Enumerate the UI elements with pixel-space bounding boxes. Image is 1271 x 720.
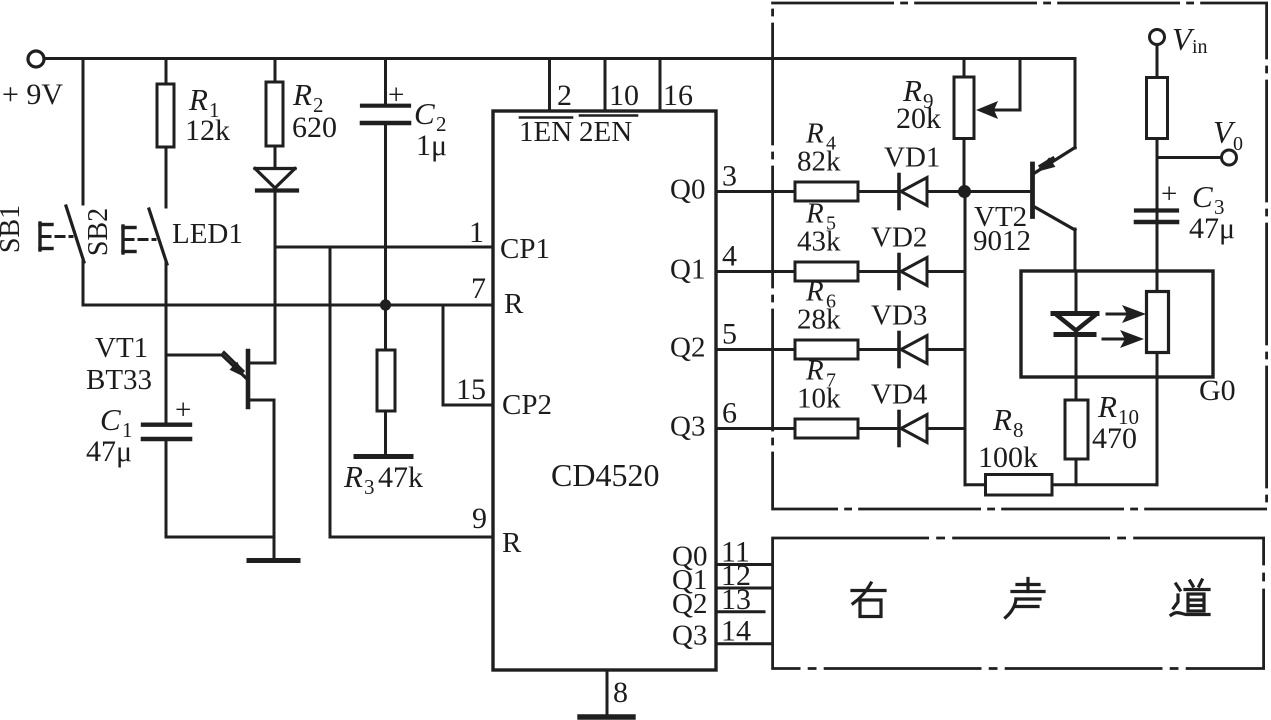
wire VD1 to bus [927,190,965,193]
svg-text:LED1: LED1 [172,218,243,250]
wire G0 LED cathode down to R10 [1075,336,1078,400]
R9 wiper arm [1019,59,1022,111]
wire R2 to LED1 [274,146,277,168]
svg-text:SB2: SB2 [83,208,114,256]
wire VT2 emitter up to bus [1074,59,1077,149]
ground pin 8 [580,714,633,719]
svg-text:Q1: Q1 [670,254,705,286]
svg-text:+: + [1161,178,1177,210]
svg-text:28k: 28k [797,304,841,336]
transistor VT1 [166,354,222,357]
svg-text:16: 16 [663,79,693,112]
svg-text:R: R [502,527,522,559]
dashed right-channel box border [773,538,1264,669]
wire pin 2 stub [548,59,551,112]
wire Q0 pin3 line [716,190,795,193]
svg-text:VD1: VD1 [884,142,940,174]
wire VT2 base from node [965,190,1030,193]
wire R8 left lead [965,483,986,486]
svg-text:C: C [100,402,121,437]
wire diode output bus vertical [964,192,967,485]
wire pin 9 R line [330,536,493,539]
wire Q2 pin5 line [716,348,795,351]
wire pin 12 line [716,587,771,590]
svg-text:6: 6 [722,397,737,430]
svg-text:620: 620 [292,111,337,144]
wire pin 16 stub [659,59,662,112]
wire pin 11 line [716,563,771,566]
wire R2 top lead [274,59,277,83]
wire R line to CP2 vertical [442,305,445,405]
svg-text:BT33: BT33 [86,364,152,396]
wire R line (pin 7) [83,304,493,307]
resistor R8 [986,475,1053,496]
svg-text:SB1: SB1 [0,205,26,253]
diode VD1 [897,175,901,209]
pin 8 stub [606,670,609,716]
wire C2 top lead [384,59,387,105]
svg-text:G0: G0 [1199,374,1236,407]
label right channel chinese sheng [1006,579,1045,618]
svg-text:Q3: Q3 [670,411,705,443]
wire SB1 top lead [82,59,85,205]
wire VT2 collector down to G0 [1074,229,1077,271]
wire R1 to SB2 [165,147,168,207]
svg-text:VT1: VT1 [95,332,148,364]
ground bar under R3 [356,454,411,459]
wire R5 to VD2 [858,270,898,273]
svg-text:CD4520: CD4520 [551,457,659,493]
wire R8 right lead [1052,483,1157,486]
svg-text:0: 0 [1233,133,1243,155]
svg-text:R: R [1097,389,1117,424]
svg-text:Q2: Q2 [672,588,707,620]
diode VD4 [897,412,901,446]
svg-text:2: 2 [557,79,572,112]
resistor R6 [795,340,858,359]
resistor R1 [157,84,174,147]
svg-text:R: R [504,288,524,320]
capacitor C1 [143,423,190,427]
wire pin 15 CP2 line [443,404,493,407]
svg-text:R: R [992,402,1012,437]
svg-text:15: 15 [456,373,486,406]
wire R9 top lead [963,59,966,78]
wire photoresistor top to C3 [1156,224,1159,292]
svg-text:82k: 82k [797,146,841,178]
label right channel chinese you [852,583,885,617]
resistor R7 [795,419,858,438]
svg-text:4: 4 [722,240,737,273]
wire VD3 to bus [927,348,965,351]
svg-text:43k: 43k [797,226,841,258]
wire main +9V bus [44,57,1075,60]
optocoupler G0 box [1021,271,1213,377]
svg-text:3: 3 [364,475,375,499]
svg-text:+: + [388,79,404,111]
svg-text:Q2: Q2 [670,332,705,364]
svg-text:47μ: 47μ [1189,212,1235,245]
switch SB1 [66,206,84,262]
svg-text:47μ: 47μ [86,435,132,468]
label right channel chinese dao [1171,580,1209,615]
svg-text:9012: 9012 [973,225,1031,257]
svg-text:5: 5 [722,318,737,351]
op-amp U1 CD4520 box [493,111,716,670]
diode VD3 [897,333,901,367]
capacitor C2 [362,104,409,108]
svg-text:2EN: 2EN [579,116,632,148]
photoresistor in G0 [1147,292,1169,353]
svg-text:10: 10 [609,79,639,112]
svg-text:CP2: CP2 [502,389,552,421]
wire R3 bottom lead [384,411,387,455]
svg-text:VD4: VD4 [871,379,928,411]
svg-text:10k: 10k [797,383,841,415]
wire R10 bottom lead [1075,459,1078,485]
wire CP1 to pin9 vertical [329,247,332,537]
LED inside G0 [1053,311,1097,316]
wire VT1 B1 down [273,400,276,537]
svg-text:VD3: VD3 [871,300,927,332]
transistor VT2 [1030,164,1035,217]
terminal Vin [1150,30,1165,45]
svg-text:Q3: Q3 [672,620,707,652]
wire R4 to VD1 [858,190,898,193]
svg-text:Q0: Q0 [670,174,705,206]
wire pin 14 line [716,642,771,645]
photoresistor arrows [1107,313,1128,316]
svg-text:20k: 20k [896,102,941,135]
resistor R9 (pot) [954,77,974,139]
svg-text:1EN: 1EN [519,116,572,148]
svg-text:470: 470 [1092,422,1137,455]
svg-text:R: R [343,459,363,494]
svg-text:12k: 12k [185,114,230,147]
resistor (Vin series) [1147,78,1168,139]
wire pin 10 stub [604,59,607,112]
wire C1 top lead [165,305,168,423]
svg-text:+: + [175,394,191,426]
wire VD4 to bus [927,427,965,430]
svg-text:8: 8 [1013,418,1024,442]
SB1 pushbutton actuator [38,223,41,250]
wire Vin to resistor [1156,45,1159,78]
wire resistor to V0 tap [1156,139,1159,225]
wire C1 bottom to ground wire [165,441,168,537]
wire R3 top lead [384,305,387,350]
svg-text:C: C [414,96,435,131]
wire R1 top lead [165,59,168,85]
wire C1 to VT1 B1 bottom [166,536,274,539]
wire Q3 pin6 line [716,427,795,430]
svg-text:CP1: CP1 [500,233,550,265]
svg-text:9: 9 [472,502,487,535]
wire LED1 cathode down to CP1 node and VT1 B2 [274,192,277,363]
wire CP1 line (pin 1) [275,246,493,249]
svg-text:47k: 47k [378,461,423,494]
svg-text:R: R [292,77,312,112]
switch SB2 [149,209,167,264]
resistor R10 [1065,400,1088,459]
wire photoresistor bottom down [1156,353,1159,485]
wire R7 to VD4 [858,427,898,430]
diode LED1 [255,167,295,170]
dashed control box border [773,3,1267,509]
svg-text:C: C [1192,179,1213,214]
junction node C2/R3 on R line [380,299,391,310]
wire R9 bottom lead [963,139,966,192]
svg-text:8: 8 [613,676,628,709]
wire R6 to VD3 [858,348,898,351]
svg-text:1: 1 [469,216,484,249]
resistor R5 [795,262,858,281]
junction node base of VT2 [958,185,971,198]
svg-text:1μ: 1μ [416,129,447,162]
resistor R4 [795,182,858,201]
resistor R3 [377,350,395,411]
capacitor C3 [1136,208,1177,212]
svg-text:3: 3 [722,160,737,193]
svg-text:R: R [188,82,208,117]
svg-text:in: in [1192,36,1208,58]
svg-text:7: 7 [471,272,486,305]
wire C2 bottom to R line [384,125,387,305]
wire V0 line [1157,156,1221,159]
terminal V0 [1222,150,1237,165]
wire pin 13 line [716,610,764,613]
wire into G0 LED [1075,271,1078,313]
terminal +9V [28,51,44,67]
SB2 pushbutton actuator [121,226,124,253]
ground under VT1 [249,558,298,563]
svg-text:VD2: VD2 [871,222,927,254]
wire VD2 to bus [927,270,965,273]
wire Q1 pin4 line [716,270,795,273]
svg-text:+ 9V: + 9V [2,78,63,111]
diode VD2 [897,255,901,289]
resistor R2 [266,82,283,146]
svg-text:100k: 100k [978,441,1038,474]
